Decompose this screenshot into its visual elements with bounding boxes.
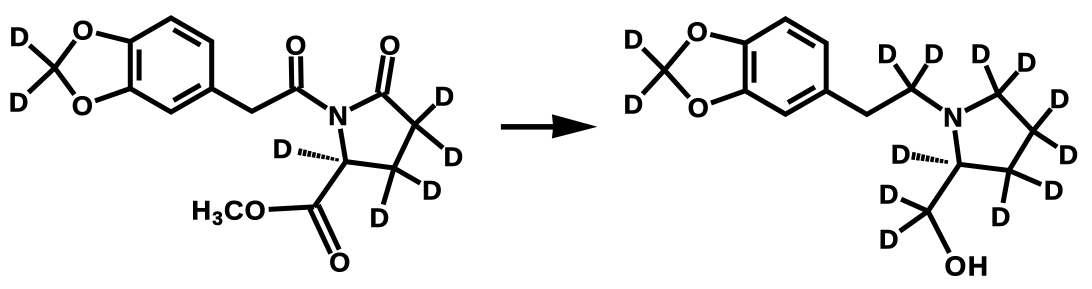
bond C-D (methylenedioxy top D): [30, 45, 55, 68]
bond C2-D (left): [986, 66, 998, 94]
hashed wedge C5-D (product): [944, 160, 948, 164]
svg-text:N: N: [943, 103, 963, 133]
bond C-O (to top O): [55, 41, 75, 68]
bond CD2-D (left): [895, 64, 912, 88]
svg-text:OH: OH: [945, 250, 990, 281]
svg-text:O: O: [72, 16, 93, 46]
double bond inner line (top-right edge, product): [788, 31, 815, 47]
double bond inner line (top-right edge): [174, 30, 201, 45]
svg-text:D: D: [370, 203, 390, 233]
bond C3-D (lower): [1033, 131, 1057, 147]
bond C5-CH2OH: [928, 164, 960, 211]
svg-text:N: N: [328, 101, 348, 131]
double bond C=O (amide): [289, 57, 295, 89]
bond CD2-N: [912, 89, 942, 110]
bond CD2-D (right): [912, 65, 927, 89]
svg-text:O: O: [687, 17, 708, 47]
double bond inner line (bottom-right edge, product): [788, 87, 815, 103]
bond N-C2 (ring, product): [965, 94, 998, 111]
svg-text:D: D: [1059, 140, 1079, 170]
double bond inner line (bottom-right edge): [174, 85, 201, 101]
bond N-C2 (ring): [350, 93, 382, 109]
svg-text:D: D: [971, 39, 991, 69]
bond O-C aryl (bottom): [95, 89, 130, 101]
bond aryl-CH2 and CH2-CD2: [826, 89, 911, 115]
svg-text:O: O: [329, 248, 350, 278]
svg-text:D: D: [624, 90, 644, 120]
svg-text:D: D: [444, 142, 464, 172]
svg-text:O: O: [688, 93, 709, 123]
svg-text:D: D: [891, 139, 911, 169]
svg-text:D: D: [624, 25, 644, 55]
bond C5-N (ring): [340, 129, 346, 162]
double bond inner line (left edge): [137, 50, 142, 81]
bond C-D (methylenedioxy bottom D, product): [643, 70, 665, 94]
double bond inner line (left edge, product): [752, 51, 757, 82]
bond C-O (to top O, product): [665, 42, 689, 71]
reaction arrow: [501, 124, 557, 130]
bond C3-D (upper): [1033, 109, 1051, 131]
bond C3-D (lower): [415, 125, 443, 148]
bond aryl-CH2 and CH2-C(=O): [212, 88, 297, 111]
svg-text:D: D: [1017, 48, 1037, 78]
bond CH2-D (upper): [901, 199, 928, 211]
bond C-O (to bottom O, product): [665, 70, 690, 97]
bond C3-D (upper): [415, 105, 435, 124]
double bond C2=O (lactam): [377, 56, 383, 93]
bond O-C aryl (top): [96, 33, 130, 42]
benzene ring right: [745, 19, 826, 114]
bond O-C (ester): [269, 207, 314, 210]
svg-text:O: O: [285, 31, 306, 61]
svg-text:D: D: [422, 176, 442, 206]
bond O-C aryl (top, product): [710, 34, 745, 43]
bond O-C aryl (bottom, product): [711, 91, 745, 103]
svg-text:D: D: [1050, 84, 1070, 114]
bond CH2-D (lower): [900, 211, 928, 231]
bond C2-C3 C3-C4 C4-C5 (ring): [346, 93, 415, 168]
svg-text:D: D: [878, 39, 898, 69]
bond C2-C3 C3-C4 C4-C5 (ring, product): [960, 94, 1034, 171]
bond C5-C(ester): [314, 162, 346, 207]
bond C4-D (bottom): [1003, 171, 1009, 203]
bond C-D (methylenedioxy bottom D): [29, 68, 55, 93]
double bond C=O (ester): [318, 205, 339, 250]
bond C-D (methylenedioxy top D, product): [643, 49, 665, 71]
bond C-O (to bottom O): [55, 68, 75, 95]
svg-text:D: D: [991, 202, 1011, 232]
hashed wedge C5-D: [335, 158, 339, 161]
bond C(=O)-N: [297, 88, 327, 108]
bond C4-D (right): [1009, 171, 1041, 185]
svg-text:D: D: [1044, 175, 1064, 205]
benzene ring left: [130, 18, 211, 112]
svg-text:D: D: [435, 81, 455, 111]
bond CH2-OH: [928, 211, 949, 253]
bond C2-D (right): [998, 72, 1018, 94]
svg-text:D: D: [9, 87, 29, 117]
svg-text:D: D: [10, 22, 30, 52]
svg-text:O: O: [379, 31, 400, 61]
svg-text:D: D: [924, 39, 944, 69]
bond C4-D (right): [394, 168, 420, 183]
svg-text:O: O: [72, 91, 93, 121]
bond C4-D (bottom): [383, 168, 394, 205]
svg-text:D: D: [879, 179, 899, 209]
svg-text:D: D: [879, 225, 899, 255]
svg-text:D: D: [273, 134, 293, 164]
svg-text:H3CO: H3CO: [192, 196, 267, 231]
bond C5-N (ring, product): [955, 130, 960, 164]
